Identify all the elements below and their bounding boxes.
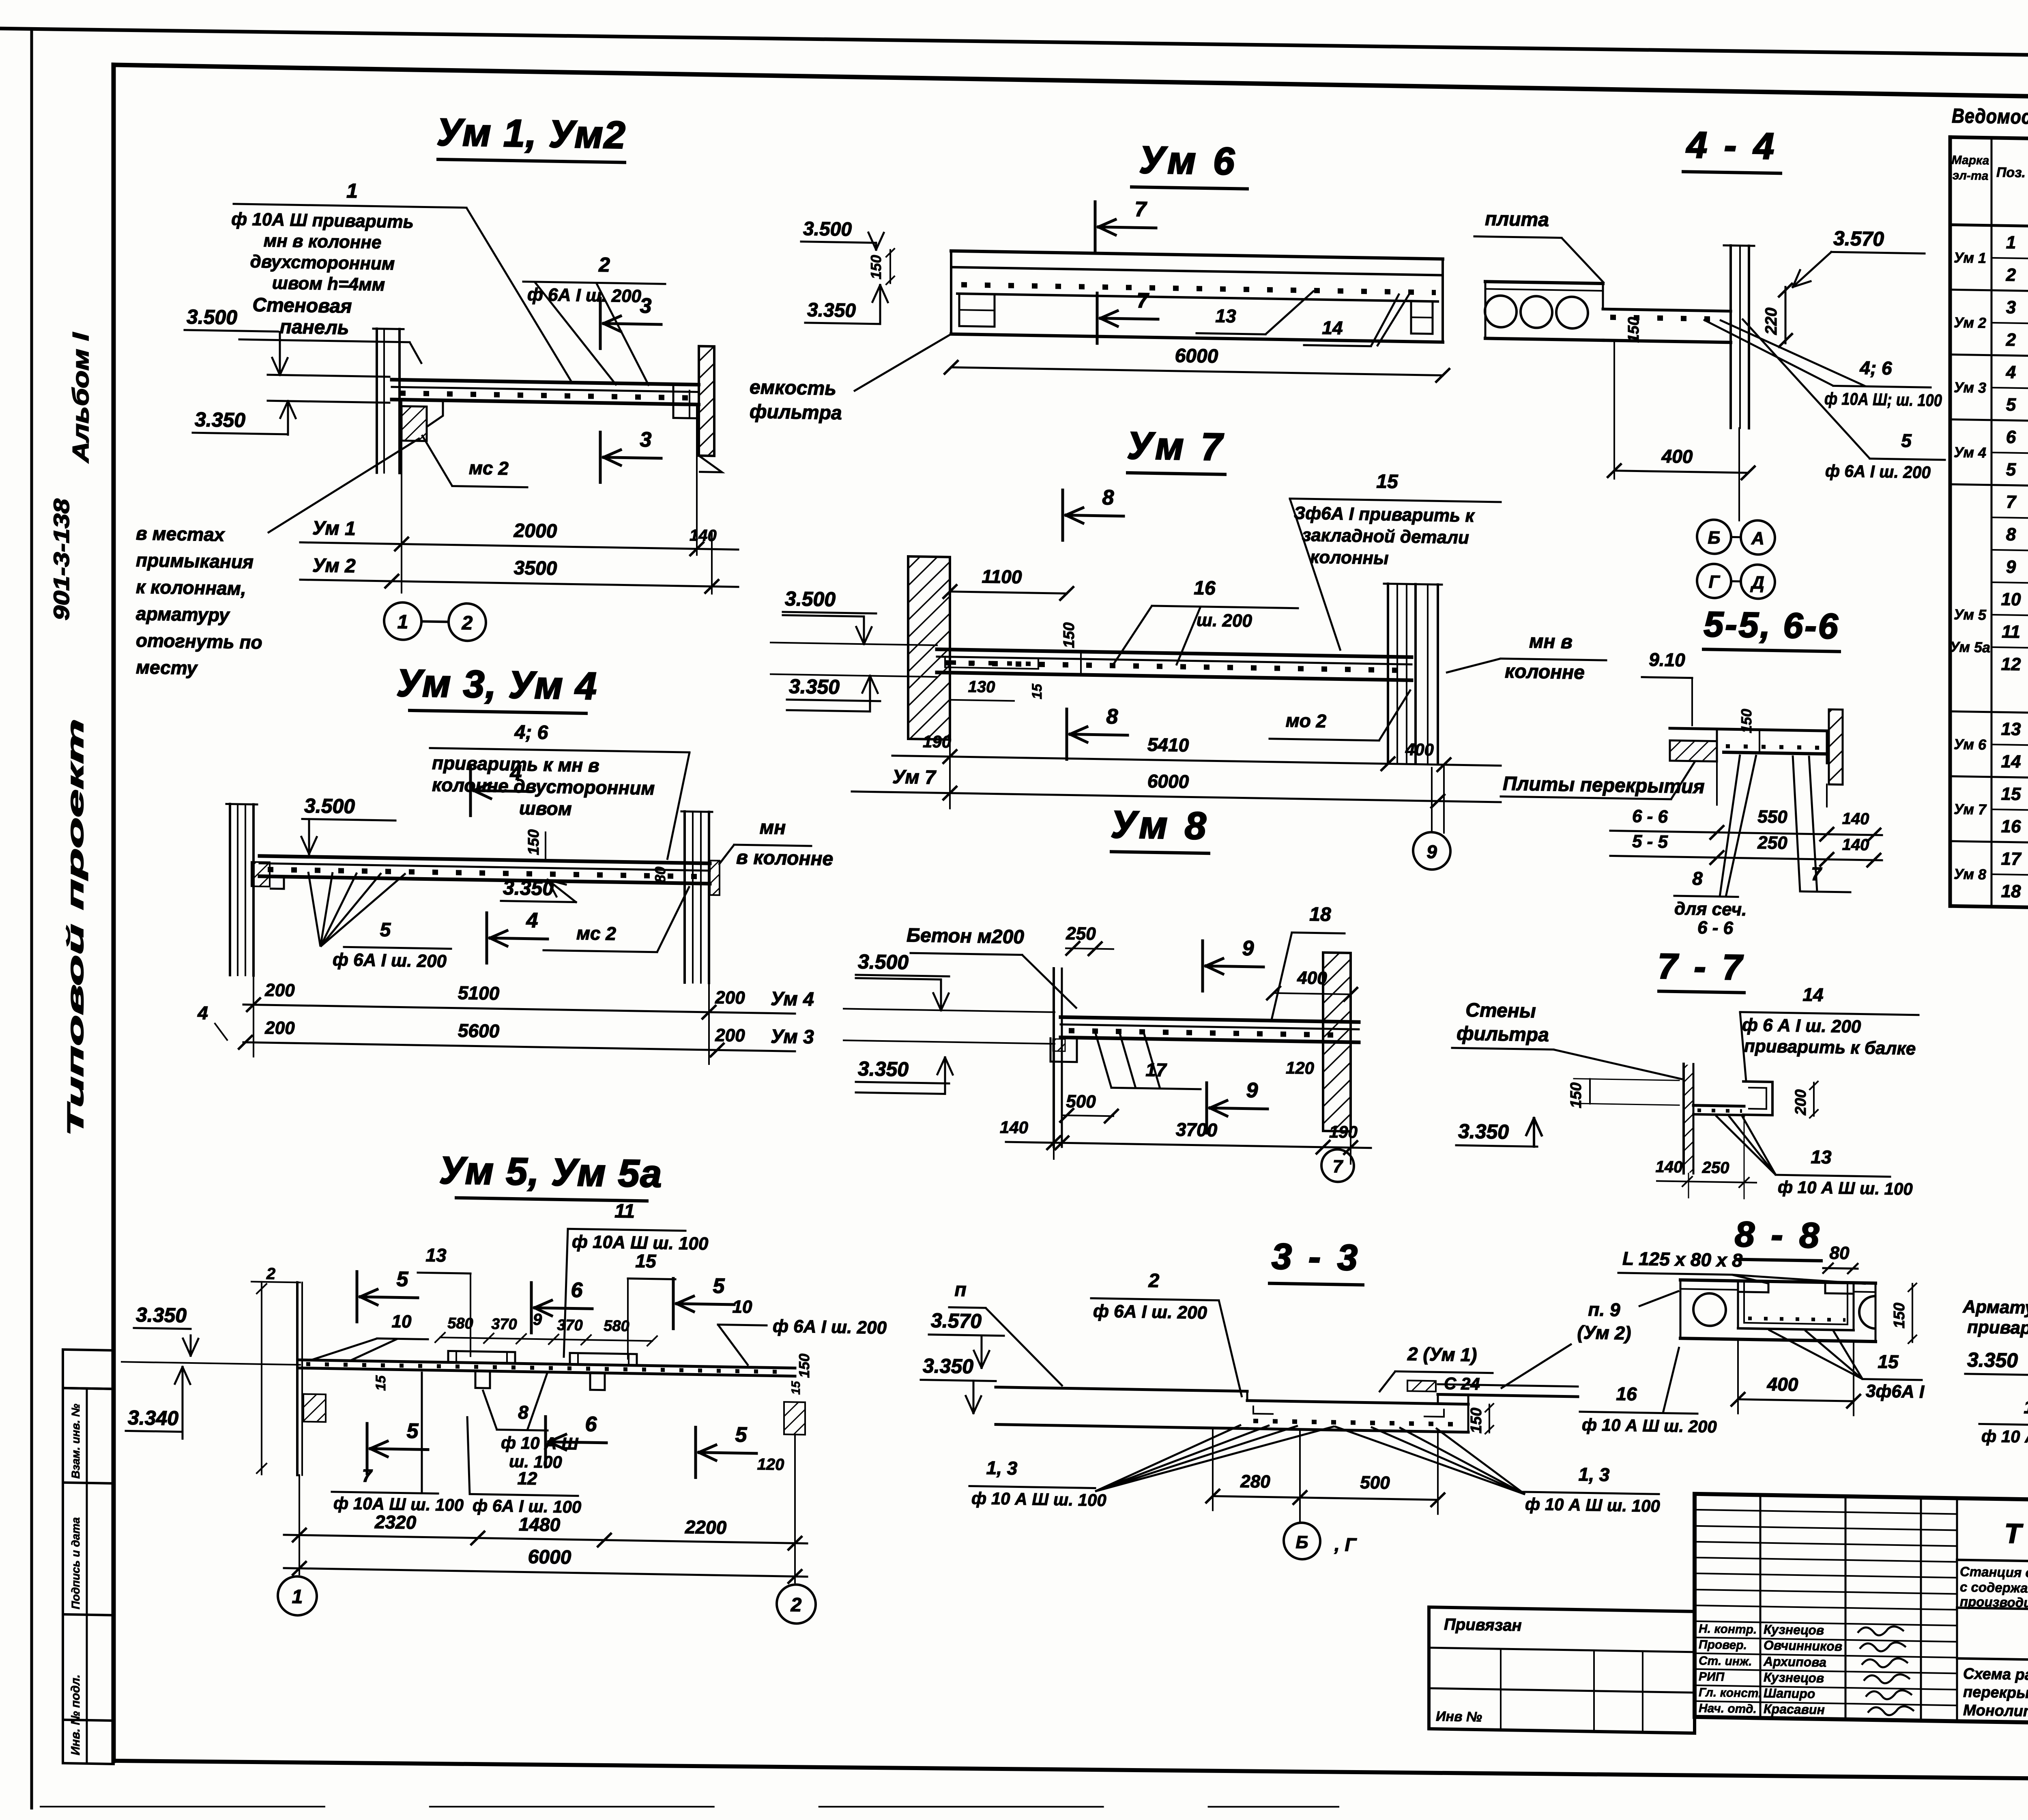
svg-text:280: 280: [1240, 1471, 1270, 1492]
svg-text:Архипова: Архипова: [1763, 1654, 1826, 1670]
svg-text:Ум 3: Ум 3: [771, 1026, 814, 1048]
svg-text:L 125 х 80 х 8: L 125 х 80 х 8: [1622, 1248, 1742, 1271]
svg-text:3700: 3700: [1176, 1119, 1218, 1141]
svg-text:14: 14: [1322, 317, 1343, 339]
svg-text:Кузнецов: Кузнецов: [1764, 1622, 1824, 1638]
svg-text:мн в колонне: мн в колонне: [264, 231, 382, 253]
svg-text:ф 10А Ш; ш. 100: ф 10А Ш; ш. 100: [1824, 389, 1942, 410]
svg-text:150: 150: [1738, 709, 1755, 734]
svg-text:5100: 5100: [458, 982, 500, 1004]
svg-text:6: 6: [2006, 427, 2016, 447]
svg-text:120: 120: [757, 1455, 784, 1474]
svg-text:8: 8: [1102, 486, 1114, 509]
svg-text:15: 15: [635, 1250, 657, 1272]
svg-text:примыкания: примыкания: [136, 549, 253, 573]
svg-text:Ум 1, Ум2: Ум 1, Ум2: [436, 111, 626, 157]
svg-text:3.350: 3.350: [923, 1354, 973, 1378]
svg-text:12: 12: [518, 1468, 537, 1489]
svg-text:6 - 6: 6 - 6: [1632, 806, 1668, 826]
svg-text:901-3-138: 901-3-138: [49, 498, 74, 620]
svg-text:3: 3: [640, 294, 652, 318]
svg-text:5: 5: [380, 919, 391, 941]
svg-text:ф 10 А Ш ш. 100: ф 10 А Ш ш. 100: [1778, 1177, 1913, 1198]
svg-text:150: 150: [1468, 1408, 1485, 1434]
svg-text:Кузнецов: Кузнецов: [1764, 1670, 1824, 1685]
svg-text:колонне: колонне: [1505, 661, 1585, 683]
svg-text:150: 150: [1891, 1303, 1908, 1329]
svg-text:Ум 2: Ум 2: [312, 555, 356, 577]
svg-text:5: 5: [397, 1267, 409, 1291]
svg-text:для сеч.: для сеч.: [1674, 899, 1747, 920]
svg-text:150: 150: [525, 829, 542, 855]
svg-text:емкость: емкость: [750, 377, 836, 400]
svg-text:10: 10: [2001, 589, 2021, 610]
svg-text:1, 3: 1, 3: [986, 1457, 1018, 1479]
svg-text:ф 6А I ш. 200: ф 6А I ш. 200: [1093, 1301, 1207, 1323]
svg-text:370: 370: [557, 1317, 582, 1334]
svg-text:Гл. конст.: Гл. конст.: [1699, 1686, 1762, 1700]
svg-text:10: 10: [733, 1297, 752, 1317]
svg-text:3.500: 3.500: [187, 305, 237, 329]
svg-text:6000: 6000: [1175, 345, 1218, 367]
svg-text:1100: 1100: [982, 566, 1022, 588]
svg-text:130: 130: [968, 678, 995, 696]
svg-text:, Г: , Г: [1334, 1534, 1357, 1555]
svg-text:к колоннам,: к колоннам,: [136, 576, 246, 599]
svg-text:колонны: колонны: [1310, 547, 1389, 568]
svg-text:400: 400: [1767, 1374, 1798, 1395]
svg-text:6 - 6: 6 - 6: [1697, 918, 1734, 938]
svg-text:Ум 7: Ум 7: [892, 766, 937, 788]
svg-text:ф 6А I ш. 200: ф 6А I ш. 200: [773, 1316, 887, 1338]
svg-text:15: 15: [1376, 471, 1399, 493]
svg-text:250: 250: [1702, 1159, 1729, 1177]
svg-text:3.570: 3.570: [1833, 227, 1884, 250]
svg-text:3.500: 3.500: [858, 950, 909, 974]
svg-text:Т П 901-3-138: Т П 901-3-138: [2004, 1518, 2028, 1552]
svg-text:2: 2: [598, 253, 610, 276]
svg-text:3.350: 3.350: [789, 675, 840, 698]
svg-text:2: 2: [2006, 330, 2016, 350]
svg-text:3.570: 3.570: [931, 1309, 982, 1333]
svg-text:9: 9: [2006, 557, 2016, 577]
svg-text:9: 9: [533, 1311, 542, 1329]
svg-text:4: 4: [2006, 362, 2016, 382]
svg-text:приварить: приварить: [1967, 1317, 2028, 1339]
svg-text:9: 9: [1426, 841, 1437, 862]
svg-text:Инв №: Инв №: [1436, 1708, 1482, 1725]
svg-text:Шапиро: Шапиро: [1764, 1686, 1815, 1701]
svg-text:Арматур у: Арматур у: [1962, 1297, 2028, 1318]
svg-text:ф 6 А I ш. 200: ф 6 А I ш. 200: [1742, 1015, 1861, 1037]
svg-text:5600: 5600: [458, 1020, 500, 1042]
svg-text:3.340: 3.340: [128, 1406, 178, 1429]
svg-text:Марка: Марка: [1952, 153, 1989, 167]
svg-text:закладной детали: закладной детали: [1302, 525, 1469, 548]
svg-text:Ум 2: Ум 2: [1954, 314, 1986, 331]
svg-text:3: 3: [2006, 297, 2016, 317]
svg-text:Д: Д: [1750, 573, 1764, 593]
svg-text:8: 8: [1692, 868, 1703, 889]
svg-text:Ум 8: Ум 8: [1111, 803, 1209, 848]
svg-text:150: 150: [1061, 622, 1078, 648]
svg-text:7: 7: [1137, 289, 1149, 313]
svg-text:ф 10 А Ш: ф 10 А Ш: [501, 1433, 578, 1453]
svg-text:Ум 1: Ум 1: [1954, 249, 1986, 266]
svg-text:500: 500: [1066, 1091, 1096, 1112]
svg-text:Б: Б: [1295, 1532, 1308, 1553]
svg-text:1480: 1480: [519, 1513, 561, 1535]
svg-text:3.350: 3.350: [807, 299, 856, 322]
svg-text:200: 200: [264, 980, 295, 1000]
svg-text:Поз.: Поз.: [1996, 165, 2026, 180]
svg-text:8: 8: [518, 1401, 528, 1423]
svg-text:Ум 5а: Ум 5а: [1950, 638, 1990, 656]
svg-text:2000: 2000: [513, 520, 557, 542]
svg-text:2: 2: [2006, 265, 2016, 285]
svg-text:200: 200: [264, 1018, 295, 1038]
svg-text:200: 200: [715, 987, 745, 1008]
svg-text:250: 250: [1066, 923, 1096, 944]
svg-text:3.350: 3.350: [1967, 1348, 2018, 1372]
svg-text:ф 6А I ш. 200: ф 6А I ш. 200: [1825, 461, 1931, 482]
svg-text:190: 190: [1329, 1122, 1358, 1142]
svg-text:Ум 3: Ум 3: [1954, 379, 1986, 396]
svg-text:4: 4: [526, 909, 538, 932]
svg-text:Ум 7: Ум 7: [1127, 424, 1225, 469]
svg-text:3.500: 3.500: [785, 587, 836, 611]
svg-text:1: 1: [292, 1586, 303, 1608]
svg-text:4: 4: [510, 761, 522, 785]
svg-text:400: 400: [1661, 445, 1693, 467]
svg-text:120: 120: [1286, 1058, 1314, 1077]
svg-text:Взам. инв. №: Взам. инв. №: [69, 1404, 82, 1479]
svg-text:13: 13: [1215, 305, 1236, 326]
svg-text:400: 400: [1405, 740, 1434, 759]
svg-text:5: 5: [2006, 395, 2016, 414]
svg-text:7: 7: [2006, 492, 2017, 512]
svg-text:18: 18: [1309, 904, 1331, 925]
svg-text:9: 9: [1246, 1079, 1258, 1102]
svg-text:5410: 5410: [1147, 734, 1189, 756]
svg-text:мо 2: мо 2: [1286, 710, 1327, 732]
svg-text:Г: Г: [1708, 572, 1720, 592]
svg-text:18: 18: [2001, 881, 2021, 901]
svg-text:Нач. отд.: Нач. отд.: [1699, 1702, 1757, 1716]
svg-text:С 24: С 24: [1444, 1374, 1480, 1393]
svg-text:4: 4: [197, 1002, 208, 1023]
svg-text:10: 10: [392, 1311, 412, 1332]
svg-text:6: 6: [571, 1278, 583, 1302]
svg-text:3.350: 3.350: [136, 1303, 187, 1327]
svg-text:15: 15: [2001, 784, 2021, 804]
svg-text:15: 15: [1029, 683, 1045, 700]
svg-text:2 (Ум 1): 2 (Ум 1): [1407, 1343, 1477, 1365]
svg-text:8: 8: [2006, 524, 2016, 544]
svg-text:ш. 200: ш. 200: [1197, 610, 1252, 631]
svg-text:панель: панель: [280, 316, 349, 339]
svg-text:месту: месту: [136, 657, 198, 679]
svg-text:приварить к балке: приварить к балке: [1744, 1036, 1916, 1059]
svg-text:580: 580: [604, 1318, 629, 1335]
svg-text:11: 11: [2002, 622, 2020, 642]
svg-text:п. 9: п. 9: [1588, 1299, 1620, 1320]
svg-text:колонне двусторонним: колонне двусторонним: [432, 774, 655, 799]
svg-text:Инв. № подл.: Инв. № подл.: [69, 1674, 82, 1756]
svg-text:ф 10 А Ш ш. 100: ф 10 А Ш ш. 100: [1981, 1426, 2028, 1447]
svg-text:5-5, 6-6: 5-5, 6-6: [1704, 604, 1839, 646]
svg-text:8 - 8: 8 - 8: [1735, 1214, 1822, 1256]
svg-text:140: 140: [1000, 1118, 1028, 1137]
svg-text:Ум 5: Ум 5: [1954, 606, 1987, 623]
svg-text:1, 3: 1, 3: [1579, 1464, 1610, 1485]
svg-text:3 - 3: 3 - 3: [1272, 1236, 1361, 1279]
svg-text:2200: 2200: [685, 1516, 727, 1538]
svg-text:ф 10А Ш приварить: ф 10А Ш приварить: [231, 209, 413, 232]
svg-text:2: 2: [1148, 1270, 1160, 1292]
svg-text:Стены: Стены: [1465, 1000, 1536, 1022]
svg-text:16: 16: [1616, 1383, 1637, 1405]
svg-text:200: 200: [1792, 1089, 1809, 1116]
svg-text:6000: 6000: [528, 1546, 571, 1569]
svg-text:13: 13: [425, 1245, 447, 1266]
svg-text:15: 15: [789, 1380, 803, 1395]
svg-text:7: 7: [1333, 1157, 1344, 1176]
svg-text:15: 15: [1878, 1351, 1899, 1372]
svg-text:двухсторонним: двухсторонним: [250, 251, 395, 274]
svg-text:1: 1: [346, 179, 358, 202]
svg-text:Ум 8: Ум 8: [1954, 865, 1986, 882]
svg-text:1: 1: [2006, 232, 2016, 252]
svg-text:580: 580: [447, 1315, 473, 1332]
svg-text:Красавин: Красавин: [1764, 1702, 1825, 1717]
svg-text:11: 11: [614, 1200, 635, 1222]
svg-text:Ум 3, Ум 4: Ум 3, Ум 4: [396, 661, 597, 708]
svg-text:16: 16: [1194, 577, 1216, 599]
svg-text:3.350: 3.350: [858, 1057, 909, 1081]
svg-text:арматуру: арматуру: [136, 603, 230, 626]
svg-text:5: 5: [713, 1274, 725, 1298]
svg-text:5: 5: [407, 1419, 419, 1443]
svg-text:швом h=4мм: швом h=4мм: [272, 273, 385, 295]
svg-text:3500: 3500: [514, 557, 557, 579]
svg-text:Провер.: Провер.: [1699, 1638, 1747, 1652]
svg-text:Ум 1: Ум 1: [312, 517, 356, 540]
svg-text:ф 10 А Ш ш. 100: ф 10 А Ш ш. 100: [971, 1489, 1106, 1510]
svg-text:Б: Б: [1708, 528, 1720, 548]
svg-text:в колонне: в колонне: [736, 847, 833, 870]
svg-text:А: А: [1751, 528, 1764, 549]
svg-text:Н. контр.: Н. контр.: [1699, 1622, 1757, 1636]
svg-text:13: 13: [2001, 719, 2021, 739]
svg-text:140: 140: [1842, 810, 1869, 828]
svg-text:80: 80: [652, 867, 668, 883]
svg-text:9: 9: [1242, 937, 1254, 960]
svg-text:3ф6А I: 3ф6А I: [1866, 1381, 1925, 1402]
svg-text:Стеновая: Стеновая: [252, 294, 352, 318]
svg-text:220: 220: [1762, 307, 1780, 335]
svg-text:ф 10 А Ш ш. 200: ф 10 А Ш ш. 200: [1582, 1415, 1717, 1436]
svg-text:150: 150: [796, 1353, 812, 1378]
svg-text:Ум 4: Ум 4: [1954, 444, 1986, 461]
svg-text:3.350: 3.350: [1458, 1120, 1509, 1143]
svg-text:ф 10 А Ш ш. 100: ф 10 А Ш ш. 100: [1525, 1494, 1660, 1515]
svg-text:6: 6: [585, 1412, 597, 1436]
svg-text:5: 5: [735, 1423, 748, 1447]
svg-text:Альбом I: Альбом I: [68, 332, 93, 464]
svg-text:14: 14: [2001, 751, 2021, 772]
svg-text:мн: мн: [760, 817, 786, 839]
svg-text:3: 3: [640, 428, 652, 451]
svg-text:150: 150: [1625, 317, 1642, 343]
svg-text:150: 150: [1568, 1082, 1585, 1108]
svg-text:500: 500: [1360, 1472, 1390, 1493]
svg-text:9.10: 9.10: [1649, 649, 1685, 670]
svg-text:3.500: 3.500: [803, 218, 852, 240]
svg-text:12: 12: [2001, 654, 2021, 674]
svg-text:РИП: РИП: [1699, 1670, 1725, 1684]
svg-text:13: 13: [1811, 1146, 1832, 1168]
svg-text:250: 250: [1757, 833, 1787, 853]
svg-text:Ум 6: Ум 6: [1954, 736, 1987, 753]
svg-text:2: 2: [266, 1265, 275, 1283]
svg-text:6000: 6000: [1147, 770, 1189, 792]
svg-text:Ст. инж.: Ст. инж.: [1699, 1654, 1752, 1668]
svg-text:2: 2: [462, 612, 473, 634]
svg-text:4; 6: 4; 6: [514, 721, 548, 743]
svg-text:370: 370: [491, 1316, 517, 1333]
svg-text:Ум 7: Ум 7: [1954, 801, 1987, 818]
svg-text:(Ум 2): (Ум 2): [1577, 1322, 1631, 1344]
svg-text:Подпись и дата: Подпись и дата: [69, 1517, 82, 1609]
svg-text:плита: плита: [1485, 208, 1549, 231]
svg-text:Ум 6: Ум 6: [1139, 138, 1237, 183]
svg-text:эл-та: эл-та: [1953, 169, 1989, 182]
svg-text:Овчинников: Овчинников: [1764, 1638, 1842, 1654]
svg-text:мс 2: мс 2: [576, 923, 616, 944]
svg-text:Привязан: Привязан: [1444, 1616, 1522, 1635]
svg-text:150: 150: [868, 255, 884, 279]
svg-text:фильтра: фильтра: [750, 401, 842, 424]
svg-text:550: 550: [1757, 807, 1787, 827]
svg-text:16: 16: [2001, 816, 2021, 837]
svg-text:фильтра: фильтра: [1457, 1023, 1549, 1046]
svg-text:2320: 2320: [374, 1511, 417, 1533]
svg-text:3.500: 3.500: [304, 794, 355, 818]
svg-text:190: 190: [923, 732, 951, 751]
svg-text:200: 200: [715, 1025, 745, 1045]
svg-text:7 - 7: 7 - 7: [1658, 946, 1745, 987]
svg-text:140: 140: [1656, 1158, 1683, 1176]
svg-text:17: 17: [2001, 849, 2022, 869]
svg-text:мн в: мн в: [1529, 631, 1573, 653]
svg-text:4; 6: 4; 6: [1859, 357, 1892, 378]
svg-text:3.350: 3.350: [195, 408, 245, 431]
svg-text:4 - 4: 4 - 4: [1686, 124, 1777, 167]
svg-text:80: 80: [1830, 1243, 1850, 1263]
svg-text:140: 140: [1842, 836, 1869, 854]
svg-text:5 - 5: 5 - 5: [1632, 831, 1668, 852]
svg-text:Ум 5, Ум 5а: Ум 5, Ум 5а: [439, 1149, 663, 1195]
svg-text:7: 7: [362, 1466, 373, 1486]
svg-text:Бетон м200: Бетон м200: [907, 925, 1024, 948]
svg-text:2: 2: [791, 1594, 802, 1616]
svg-text:17: 17: [2024, 1396, 2028, 1418]
svg-text:ф 6А I ш. 200: ф 6А I ш. 200: [333, 950, 447, 972]
svg-text:5: 5: [2006, 459, 2016, 479]
svg-text:8: 8: [1106, 705, 1118, 728]
svg-text:15: 15: [373, 1375, 389, 1391]
svg-text:отогнуть по: отогнуть по: [136, 630, 262, 653]
svg-text:Зф6А I приварить к: Зф6А I приварить к: [1294, 503, 1475, 526]
svg-text:Ум 4: Ум 4: [771, 988, 814, 1010]
svg-text:Типовой проект: Типовой проект: [62, 719, 88, 1137]
svg-text:5: 5: [1901, 430, 1912, 451]
svg-text:швом: швом: [519, 797, 572, 819]
svg-text:1: 1: [397, 611, 408, 633]
svg-text:в местах: в местах: [136, 523, 226, 545]
svg-text:мс 2: мс 2: [469, 457, 509, 479]
svg-text:п: п: [954, 1279, 966, 1301]
svg-text:7: 7: [1135, 197, 1147, 221]
svg-text:14: 14: [1802, 984, 1823, 1005]
